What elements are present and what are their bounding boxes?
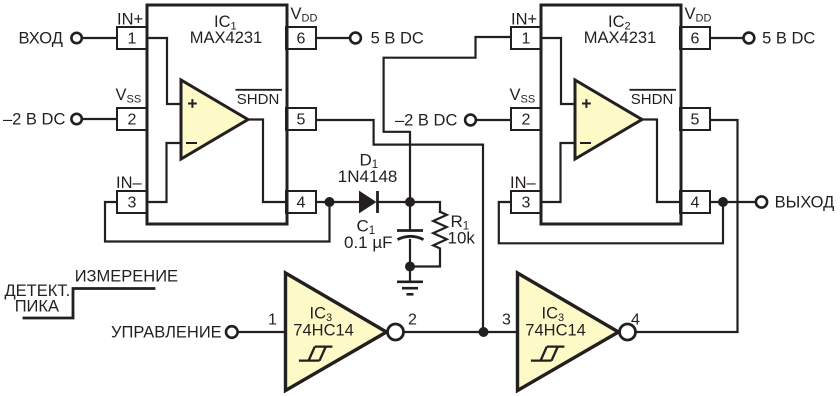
svg-text:0.1 µF: 0.1 µF: [344, 233, 393, 252]
svg-text:2: 2: [128, 112, 137, 129]
svg-text:IN–: IN–: [510, 174, 537, 192]
svg-text:ВХОД: ВХОД: [19, 30, 63, 48]
svg-text:3: 3: [522, 195, 531, 212]
svg-text:ИЗМЕРЕНИЕ: ИЗМЕРЕНИЕ: [75, 268, 178, 286]
svg-text:3: 3: [128, 195, 137, 212]
svg-text:74HC14: 74HC14: [525, 322, 586, 340]
svg-text:SHDN: SHDN: [237, 91, 280, 108]
svg-text:6: 6: [297, 31, 306, 48]
svg-text:74HC14: 74HC14: [293, 322, 354, 340]
svg-text:IN+: IN+: [117, 11, 143, 29]
svg-text:IN–: IN–: [116, 174, 143, 192]
svg-text:5: 5: [297, 112, 306, 129]
svg-text:MAX4231: MAX4231: [190, 29, 262, 47]
svg-text:–2 В DC: –2 В DC: [3, 111, 65, 129]
svg-text:1: 1: [522, 31, 531, 48]
svg-text:5 В DC: 5 В DC: [762, 30, 815, 48]
svg-text:1: 1: [128, 31, 137, 48]
svg-text:УПРАВЛЕНИЕ: УПРАВЛЕНИЕ: [111, 324, 222, 342]
svg-text:4: 4: [631, 312, 640, 329]
svg-text:3: 3: [502, 312, 511, 329]
svg-text:10k: 10k: [448, 229, 476, 248]
svg-text:ВЫХОД: ВЫХОД: [775, 194, 835, 212]
svg-text:5: 5: [691, 112, 700, 129]
svg-text:–2 В DC: –2 В DC: [395, 112, 457, 130]
svg-text:5 В DC: 5 В DC: [371, 30, 424, 48]
svg-text:1: 1: [268, 312, 277, 329]
svg-text:2: 2: [522, 112, 531, 129]
svg-text:ПИКА: ПИКА: [15, 298, 59, 316]
svg-text:4: 4: [297, 195, 306, 212]
svg-text:4: 4: [691, 195, 700, 212]
svg-text:2: 2: [408, 312, 417, 329]
svg-text:6: 6: [691, 31, 700, 48]
svg-text:1N4148: 1N4148: [338, 167, 398, 186]
svg-text:SHDN: SHDN: [631, 91, 674, 108]
svg-text:IN+: IN+: [511, 11, 537, 29]
svg-text:MAX4231: MAX4231: [584, 29, 656, 47]
